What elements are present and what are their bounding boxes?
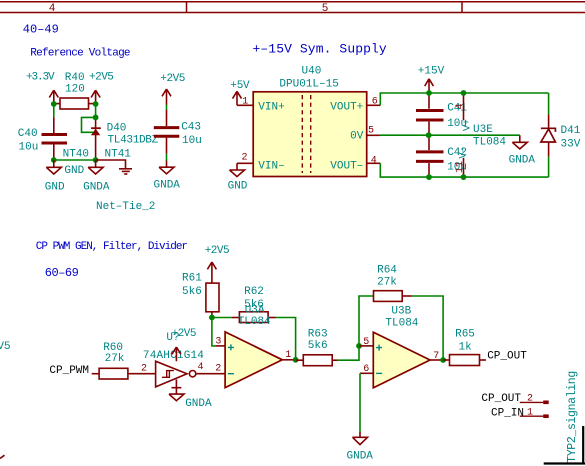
junction node +3.3V: [51, 101, 57, 107]
svg-text:GND: GND: [45, 181, 65, 193]
svg-text:5: 5: [322, 3, 329, 15]
svg-text:27k: 27k: [105, 353, 125, 365]
svg-text:60–69: 60–69: [45, 266, 79, 280]
junction +15V rail / U3E: [461, 90, 467, 96]
junction U3B output: [440, 357, 446, 363]
svg-text:D41: D41: [561, 125, 581, 137]
sheet TYP2_signaling border: [544, 426, 585, 464]
svg-text:V–: V–: [459, 146, 470, 158]
capacitor C40: [18, 118, 67, 161]
resistor R62: [232, 286, 276, 323]
svg-text:2: 2: [215, 364, 221, 375]
svg-text:4: 4: [198, 362, 204, 373]
svg-text:R40: R40: [65, 72, 85, 84]
svg-text:GNDA: GNDA: [185, 398, 212, 410]
wire VOUT+ to +15V rail: [380, 93, 548, 105]
svg-text:4: 4: [455, 103, 466, 109]
svg-text:+2V5: +2V5: [89, 72, 113, 84]
svg-text:+–15V Sym. Supply: +–15V Sym. Supply: [253, 41, 387, 56]
wire +2V5 to C43: [166, 105, 168, 111]
op-amp U3A: [215, 332, 295, 388]
wire D40 ref loop: [82, 117, 96, 132]
svg-text:4: 4: [49, 3, 56, 15]
power +2V5 (R40 right): [89, 72, 113, 105]
svg-text:5: 5: [363, 337, 369, 348]
svg-text:3: 3: [215, 337, 221, 348]
svg-text:1: 1: [242, 96, 248, 107]
svg-text:U3A: U3A: [245, 305, 265, 317]
svg-text:0V: 0V: [350, 131, 364, 143]
svg-text:10u: 10u: [182, 135, 202, 147]
svg-text:U3B: U3B: [391, 305, 411, 317]
svg-text:GND: GND: [64, 165, 84, 177]
svg-text:5k6: 5k6: [308, 340, 328, 352]
wire pin6 to GNDA: [359, 373, 361, 432]
junction GND node: [51, 157, 57, 163]
svg-text:TYP2_signaling: TYP2_signaling: [566, 371, 579, 463]
earth ground symbol: [119, 169, 132, 174]
svg-text:VIN+: VIN+: [258, 102, 284, 114]
junction node +2V5: [93, 101, 99, 107]
ground GND (U40): [228, 163, 248, 192]
power +5V: [230, 80, 250, 105]
svg-text:+5V: +5V: [230, 80, 250, 92]
svg-text:CP_PWM: CP_PWM: [49, 365, 89, 377]
resistor R64 feedback: [359, 265, 443, 360]
power +2V5 (inverter): [172, 328, 196, 361]
svg-text:6: 6: [363, 364, 369, 375]
resistor R60: [99, 342, 156, 379]
power +2V5 (C43): [160, 73, 184, 105]
svg-text:U40: U40: [302, 66, 322, 78]
svg-text:NT40: NT40: [63, 149, 89, 161]
svg-text:11: 11: [455, 161, 466, 173]
svg-text:CP_OUT: CP_OUT: [481, 393, 521, 405]
svg-text:Net–Tie_2: Net–Tie_2: [96, 201, 155, 213]
svg-text:40–49: 40–49: [23, 23, 59, 37]
svg-text:+15V: +15V: [418, 66, 445, 78]
resistor R61: [182, 273, 219, 318]
svg-text:27k: 27k: [377, 277, 397, 289]
sheet pin CP_OUT 2: [481, 393, 548, 405]
op-amp U3B: [359, 305, 443, 387]
junction +15V rail / C41: [426, 90, 432, 96]
op-amp U3E power unit pin 4: [455, 93, 474, 131]
wire +2V5 node down: [95, 104, 97, 117]
U40 pin 4 VOUT-: [330, 155, 380, 172]
svg-text:TL084: TL084: [385, 317, 418, 329]
sheet border top line: [0, 2, 585, 13]
junction -15V rail / U3E: [461, 174, 467, 180]
op-amp U3E power unit pin 11: [455, 146, 470, 177]
svg-text:5: 5: [368, 126, 374, 137]
svg-text:V+: V+: [463, 119, 474, 131]
wire to earth ground: [96, 160, 126, 168]
svg-text:U3E: U3E: [473, 124, 493, 136]
svg-text:GNDA: GNDA: [347, 450, 374, 462]
wire VOUT- to -15V rail: [380, 163, 548, 177]
svg-text:TL084: TL084: [473, 136, 506, 148]
power +2V5 (R61): [205, 245, 229, 276]
wire CP_PWM to R60: [92, 373, 99, 375]
ground GNDA: [83, 160, 110, 193]
svg-text:4: 4: [371, 155, 377, 166]
svg-text:+2V5: +2V5: [160, 73, 184, 85]
wire 0V rail: [380, 134, 520, 136]
capacitor C43: [154, 110, 202, 154]
svg-text:+2V5: +2V5: [205, 245, 229, 257]
svg-text:R61: R61: [182, 273, 202, 285]
svg-text:R64: R64: [377, 265, 397, 277]
inverter U? 74AHC1G14: [141, 332, 204, 387]
wire inverter out to op-amp: [196, 373, 225, 375]
capacitor C42: [416, 135, 467, 177]
svg-text:VIN–: VIN–: [258, 161, 284, 173]
junction pin5 node: [356, 343, 362, 349]
wire R62 to output node: [276, 318, 296, 360]
wire C43 to GNDA: [166, 154, 168, 161]
svg-text:V5: V5: [0, 341, 11, 353]
svg-text:Reference Voltage: Reference Voltage: [30, 47, 130, 59]
power arrow fragment (bottom left): [0, 455, 5, 458]
svg-text:C40: C40: [18, 128, 38, 140]
svg-text:TL431DBZ: TL431DBZ: [108, 135, 159, 147]
svg-text:TL084: TL084: [238, 316, 271, 328]
svg-text:2: 2: [141, 363, 147, 374]
wire D41 to -15V rail: [548, 157, 550, 178]
converter U40 DPU01L-15 body: [253, 66, 367, 177]
ground GNDA (inverter): [169, 380, 212, 411]
resistor R65: [443, 329, 486, 366]
svg-text:VOUT+: VOUT+: [330, 102, 363, 114]
svg-text:2: 2: [242, 152, 248, 163]
svg-text:CP PWM GEN, Filter, Divider: CP PWM GEN, Filter, Divider: [36, 241, 188, 253]
junction R61/R62: [209, 315, 215, 321]
svg-text:VOUT–: VOUT–: [330, 161, 363, 173]
svg-text:10u: 10u: [19, 141, 39, 153]
junction 0V rail / C41 C42: [426, 132, 432, 138]
ground GNDA (0V rail): [509, 135, 536, 166]
svg-text:6: 6: [372, 96, 378, 107]
svg-text:D40: D40: [107, 122, 127, 134]
zener diode D41: [541, 115, 581, 157]
ground GNDA (U3B): [347, 432, 374, 463]
svg-text:GNDA: GNDA: [83, 181, 110, 193]
sheet pin CP_IN 1: [491, 408, 549, 420]
svg-text:GNDA: GNDA: [154, 180, 181, 192]
svg-text:120: 120: [65, 83, 85, 95]
svg-text:DPU01L–15: DPU01L–15: [279, 78, 338, 90]
wire ground rail (GND to GNDA): [54, 159, 96, 161]
junction -15V rail / C42: [426, 174, 432, 180]
power +3.3V: [26, 72, 58, 105]
U40 pin 2 VIN-: [237, 152, 285, 172]
svg-text:NT41: NT41: [105, 149, 132, 161]
wire +15V rail to D41: [548, 93, 550, 115]
svg-text:GND: GND: [228, 181, 248, 193]
svg-text:5k6: 5k6: [182, 286, 202, 298]
svg-text:+2V5: +2V5: [172, 328, 196, 340]
op-amp U3A labels: [238, 305, 271, 328]
wire output to R63: [296, 359, 304, 361]
capacitor C41: [416, 93, 467, 135]
U40 pin 1 VIN+: [237, 96, 285, 113]
svg-text:CP_OUT: CP_OUT: [487, 351, 527, 363]
wire +3.3V node down: [53, 104, 55, 118]
junction D40 cathode: [93, 115, 99, 121]
svg-text:CP_IN: CP_IN: [491, 408, 524, 420]
wire R61 to pin3: [212, 318, 216, 346]
U40 pin 6 VOUT+: [330, 96, 380, 113]
junction U3A output: [293, 357, 299, 363]
svg-text:1k: 1k: [459, 342, 473, 354]
svg-text:7: 7: [433, 351, 439, 362]
shunt regulator D40 TL431DBZ: [91, 117, 159, 160]
resistor R63: [303, 329, 338, 366]
svg-text:33V: 33V: [561, 139, 581, 151]
svg-text:C43: C43: [181, 121, 201, 133]
ground GND: [45, 160, 65, 193]
svg-text:R62: R62: [244, 286, 264, 298]
U40 pin 5 0V: [350, 126, 379, 143]
junction GNDA node: [93, 157, 99, 163]
power +15V: [418, 66, 445, 94]
wire junction to R62: [212, 317, 232, 319]
svg-text:+3.3V: +3.3V: [26, 72, 55, 84]
ground GNDA (C43): [154, 161, 181, 192]
resistor R40: [54, 72, 96, 109]
wire R63 to U3B pin5: [338, 346, 359, 360]
svg-text:R65: R65: [455, 329, 475, 341]
svg-text:GNDA: GNDA: [509, 154, 536, 166]
